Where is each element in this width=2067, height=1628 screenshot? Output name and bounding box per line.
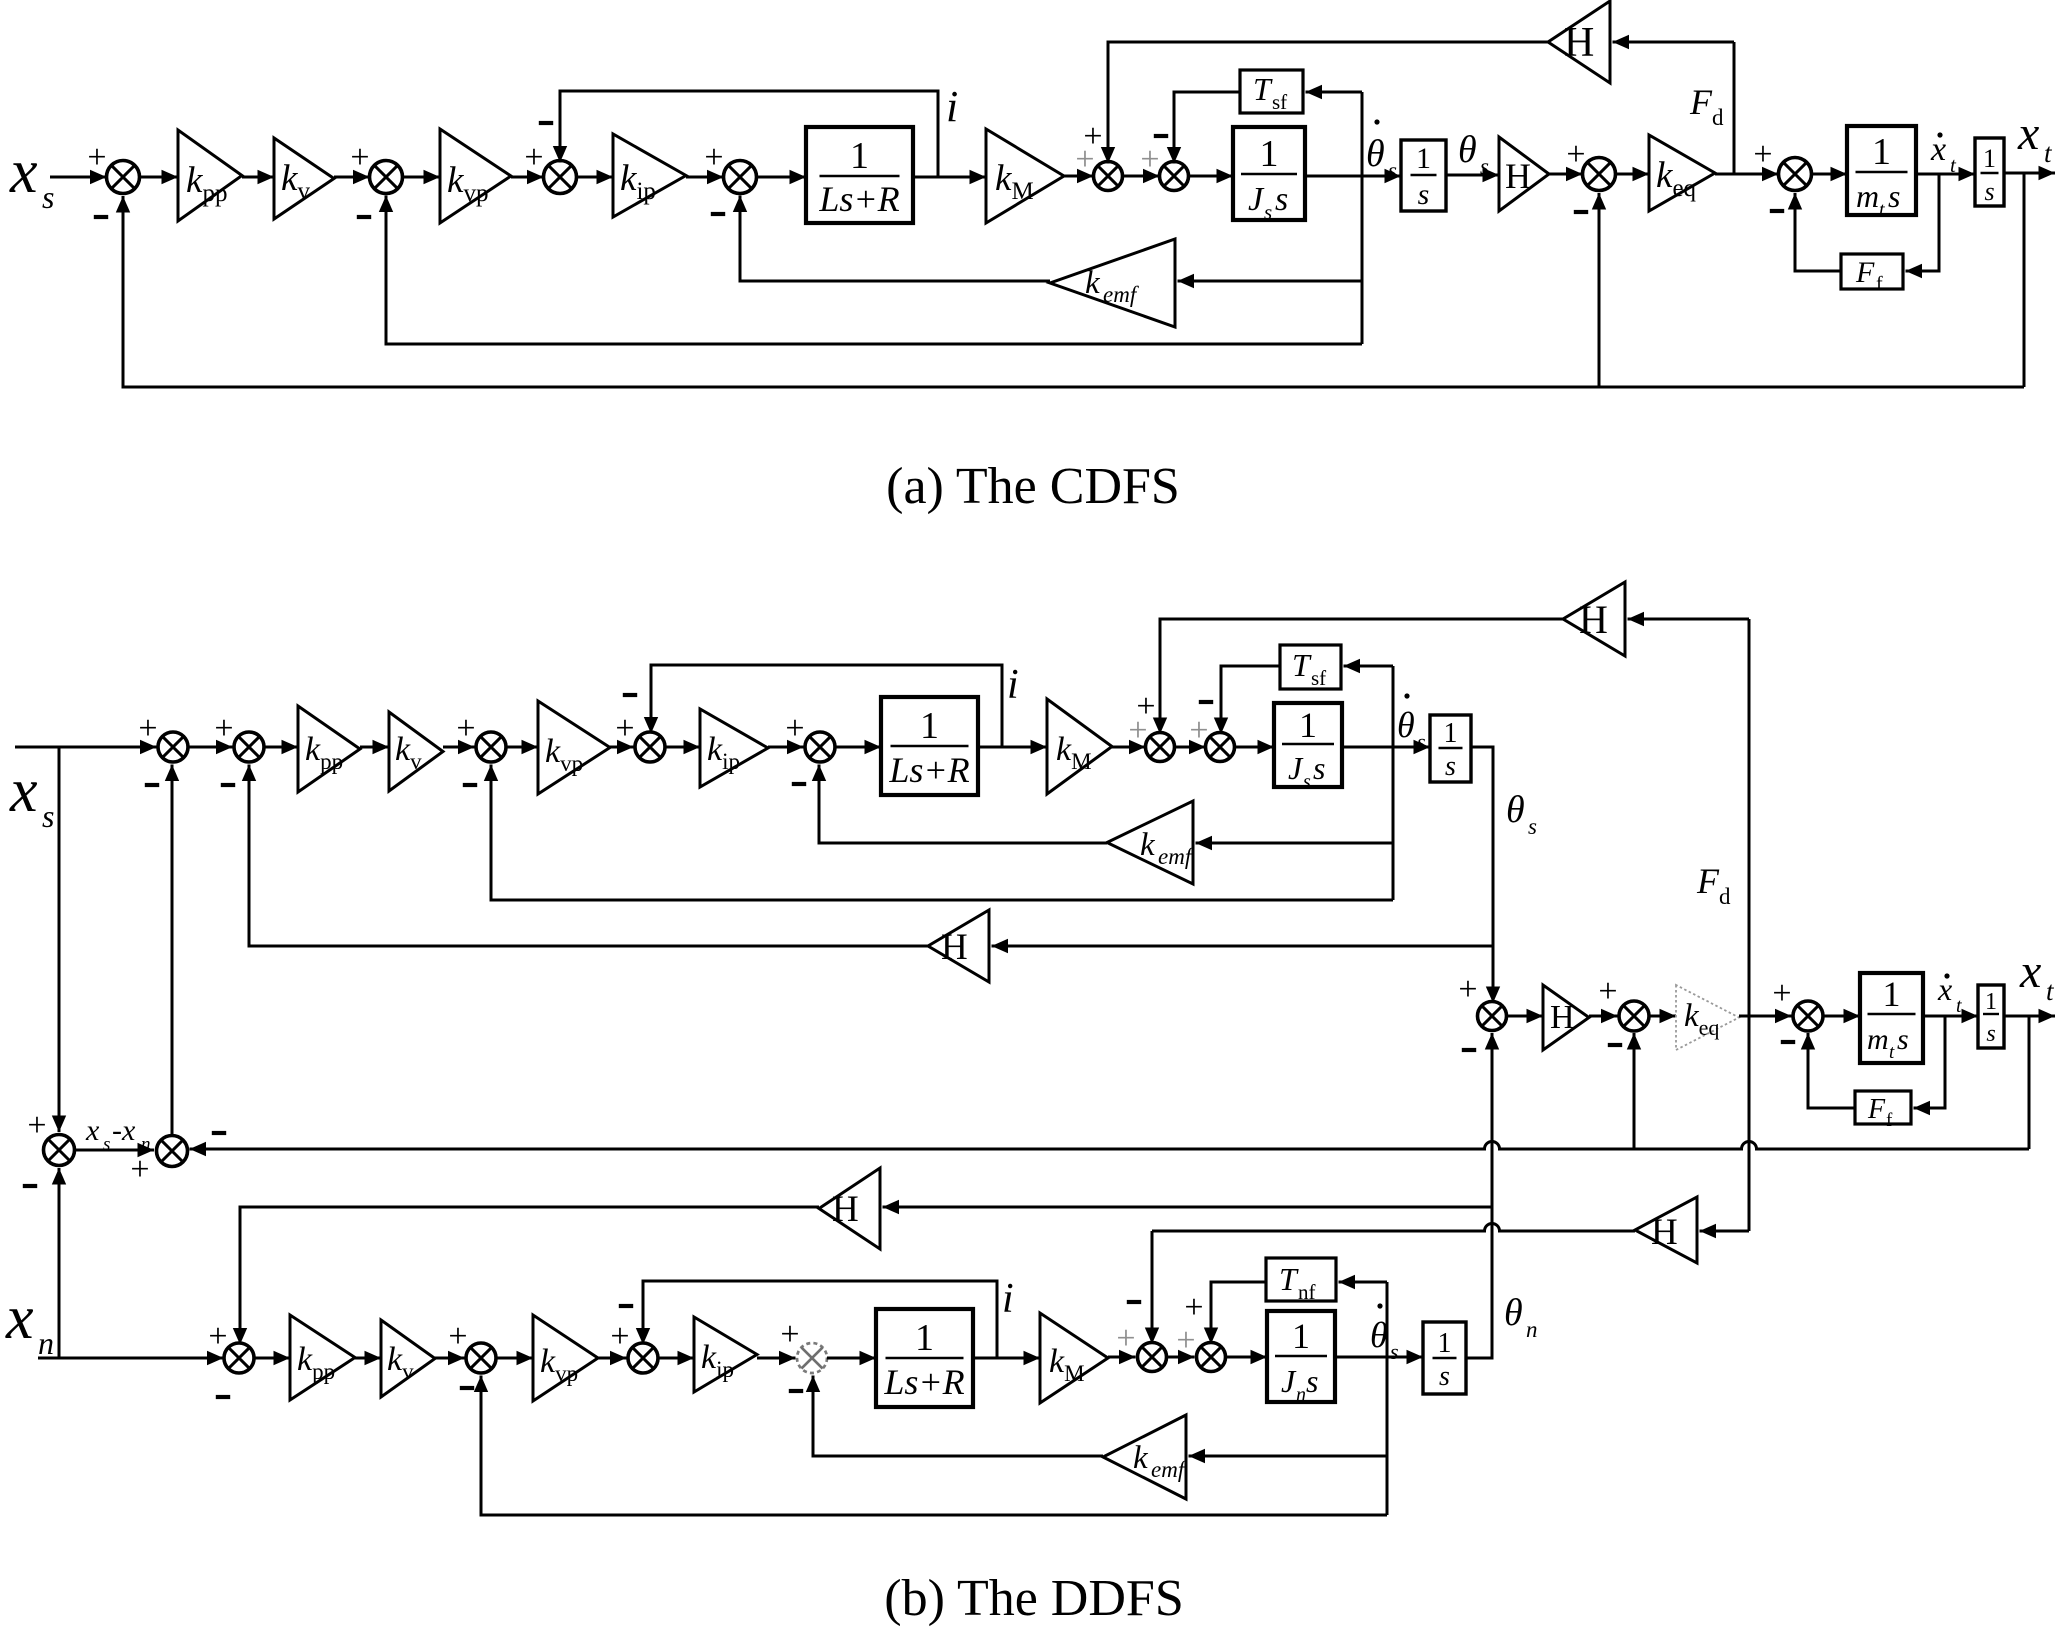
svg-text:+: + <box>1128 712 1147 749</box>
wire feedback tap to S7 (a) <box>1592 193 1606 387</box>
summing junction B3 (b) <box>476 732 506 762</box>
wire F_d to H input (b lower-right) <box>1700 1224 1750 1238</box>
summing junction B6 (b) <box>1146 733 1175 762</box>
svg-text:θ: θ <box>1504 1292 1523 1334</box>
gain k_emf (a) <box>1050 239 1175 327</box>
label theta_s (b) <box>1506 789 1537 839</box>
label theta_dot_s (b) <box>1397 693 1426 754</box>
svg-text:s: s <box>1275 181 1288 218</box>
label x_n input (b) <box>5 1284 54 1361</box>
svg-text:t: t <box>1889 1042 1895 1063</box>
block T_nf (b) <box>1266 1258 1336 1304</box>
wire F_d vertical (a) <box>1733 42 1736 174</box>
plus sign B_n6 left (b) <box>1176 1322 1195 1359</box>
wire H output to B_n1 (b) <box>233 1207 819 1345</box>
wire k_pp to k_v (a) <box>242 170 274 184</box>
wire k_M to sum B6 (b) <box>1112 740 1146 754</box>
plus sign B_n4 (b) <box>780 1316 799 1353</box>
wire k_pp to k_v (b bottom) <box>355 1351 381 1365</box>
label x_dot_t (a) <box>1930 131 1957 177</box>
svg-text:+: + <box>214 710 233 747</box>
svg-text:F: F <box>1867 1094 1886 1125</box>
svg-text:Ls+R: Ls+R <box>888 750 969 790</box>
svg-text:J: J <box>1288 750 1304 786</box>
gain k_v (b bottom) <box>381 1320 435 1397</box>
plus sign B6 top (b) <box>1136 688 1155 725</box>
wire k_emf input (a) <box>1178 274 1363 288</box>
plus sign S4 (a) <box>704 139 723 176</box>
summing junction B_n2 (b) <box>466 1343 496 1373</box>
plus sign S3 (a) <box>524 139 543 176</box>
wire theta_s to H input (b mid-left) <box>992 939 1494 953</box>
wire B_n5 to sum B_n6 (b) <box>1167 1350 1195 1364</box>
svg-text:F: F <box>1696 861 1720 901</box>
minus sign S6 top (a) <box>1154 134 1168 138</box>
wire k_vp to sum B_n3 (b) <box>598 1351 627 1365</box>
svg-text:θ: θ <box>1366 133 1385 175</box>
minus sign B_n5 top (b) <box>1127 1300 1141 1304</box>
svg-text:emf: emf <box>1158 844 1195 869</box>
svg-text:1: 1 <box>1438 1328 1452 1359</box>
wire S1 to k_pp (a) <box>140 170 179 184</box>
wire H output to B2 (b) <box>242 765 928 947</box>
wire H to sum B9 (b) <box>1589 1009 1618 1023</box>
wire current i feedback (b top) <box>644 665 1002 747</box>
wire S5 to sum S6 (a) <box>1123 169 1160 183</box>
wire velocity feedback to S2 (a) <box>379 196 1362 345</box>
minus sign B_n4 (b) <box>789 1389 803 1393</box>
gain H force feedback (b lower-right) <box>1635 1197 1697 1263</box>
svg-text:1: 1 <box>915 1317 934 1359</box>
summing junction S3 (a) <box>544 161 577 194</box>
wire current i feedback (b bottom) <box>636 1281 997 1358</box>
svg-text:1: 1 <box>1416 142 1431 175</box>
label x_t output (b) <box>2019 945 2055 1006</box>
plus sign B7 left (b) <box>1189 712 1208 749</box>
wire 1/(Ls+R) to k_M (b) <box>978 740 1047 754</box>
block 1/(m_t s) (a) <box>1847 126 1916 221</box>
gain k_pp (b bottom) <box>290 1315 355 1400</box>
plus sign S1 (a) <box>87 139 106 176</box>
svg-text:t: t <box>1956 995 1962 1017</box>
gain k_ip (b) <box>700 709 768 787</box>
svg-text:i: i <box>946 82 958 131</box>
plus sign S5 left (a) <box>1075 141 1094 178</box>
svg-text:i: i <box>1002 1276 1014 1322</box>
svg-text:s: s <box>1417 729 1426 754</box>
plus sign A2 left (b) <box>130 1151 149 1188</box>
svg-text:H: H <box>941 927 968 968</box>
wire S3 to k_ip (a) <box>577 170 614 184</box>
wire k_emf input (b bottom) <box>1189 1449 1388 1463</box>
wire B_n2 to k_vp (b bottom) <box>496 1351 533 1365</box>
svg-text:m: m <box>1856 178 1879 214</box>
wire 1/(J_s s) to integrator 1/s (b) <box>1342 740 1430 754</box>
summing junction B2 (b) <box>234 732 264 762</box>
svg-text:s: s <box>1303 771 1311 793</box>
label current i (b bottom) <box>1002 1276 1014 1322</box>
wire S7 to k_eq (a) <box>1616 167 1650 181</box>
svg-text:J: J <box>1248 181 1265 218</box>
summing junction A2 (b) <box>157 1136 188 1167</box>
block T_sf (a) <box>1240 70 1303 114</box>
minus sign A1 bottom (b) <box>23 1184 37 1188</box>
svg-text:s: s <box>1897 1023 1909 1056</box>
wire F_d vertical (b) <box>1748 619 1751 1231</box>
block F_f (a) <box>1841 254 1903 295</box>
minus sign B_n3 above (b) <box>619 1304 633 1308</box>
wire x_t output (b) <box>2004 1009 2055 1023</box>
svg-text:+: + <box>1075 141 1094 178</box>
wire H output to S5 (a) <box>1101 42 1548 164</box>
plus sign S7 (a) <box>1566 136 1585 173</box>
label x_s input (b) <box>9 757 54 834</box>
wire k_vp to sum S3 (a) <box>511 170 544 184</box>
gain k_eq (a) <box>1649 135 1715 211</box>
plus sign B5 (b) <box>785 710 804 747</box>
wire x_dot tap to F_f (b) <box>1914 1016 1946 1115</box>
wire x_t long feedback (b) <box>190 1142 2030 1157</box>
svg-text:d: d <box>1712 105 1724 130</box>
wire k_emf output to B5 (b) <box>812 765 1107 844</box>
minus sign B_n1 (b) <box>216 1395 230 1399</box>
wire T_sf input (a) <box>1306 85 1363 99</box>
svg-text:s: s <box>42 798 54 834</box>
integrator 1/s output (a) <box>1975 138 2004 206</box>
wire k_M to sum B_n5 (b) <box>1108 1350 1136 1364</box>
svg-text:i: i <box>1007 662 1019 708</box>
gain H middle (b) <box>1543 985 1589 1050</box>
block 1/(Ls+R) (b) <box>881 697 978 795</box>
label theta_n (b) <box>1504 1292 1538 1342</box>
label x_s-x_n (b) <box>85 1114 151 1155</box>
svg-text:emf: emf <box>1103 282 1140 307</box>
svg-text:+: + <box>1116 1320 1135 1357</box>
plus sign S5 top (a) <box>1083 118 1102 155</box>
minus sign B9 (b) <box>1608 1043 1622 1047</box>
svg-text:s: s <box>1313 750 1325 786</box>
wire k_pp to k_v (b) <box>360 740 389 754</box>
wire theta_s corner down (b) <box>1471 747 1493 946</box>
gain k_emf (b top) <box>1107 801 1195 884</box>
plus sign B_n2 (b) <box>448 1318 467 1355</box>
svg-text:+: + <box>456 710 475 747</box>
svg-text:+: + <box>610 1318 629 1355</box>
wire k_eq to sum B10 (b) <box>1739 1009 1792 1023</box>
svg-text:1: 1 <box>1299 705 1317 745</box>
summing junction B7 (b) <box>1206 733 1235 762</box>
wire F_d to H input (a) <box>1613 35 1735 49</box>
svg-text:d: d <box>1719 884 1731 909</box>
summing junction S6 (a) <box>1160 162 1189 191</box>
wire H output to B6 (b) <box>1153 619 1563 734</box>
svg-text:F: F <box>1855 256 1875 289</box>
summing junction S2 (a) <box>370 161 403 194</box>
svg-text:n: n <box>1526 1317 1538 1342</box>
plus sign B3 (b) <box>456 710 475 747</box>
wire k_emf output to S4 (a) <box>733 196 1050 282</box>
wire x_dot_t tap to F_f (a) <box>1906 174 1940 278</box>
wire A2 output up to B1 (b) <box>165 765 179 1136</box>
gain k_v (a) <box>274 138 334 219</box>
wire S6 to block 1/(J_s s) (a) <box>1189 169 1234 183</box>
wire B6 to sum B7 (b) <box>1175 740 1206 754</box>
plus sign S2 (a) <box>350 139 369 176</box>
wire k_v to sum B3 (b) <box>443 740 475 754</box>
svg-text:1: 1 <box>1983 144 1996 173</box>
svg-text:+: + <box>1189 712 1208 749</box>
wire F_f output to S8 (a) <box>1788 193 1841 271</box>
wire B4 to k_ip (b) <box>665 740 700 754</box>
svg-text:+: + <box>1753 136 1772 173</box>
caption (a) The CDFS <box>886 458 1180 515</box>
wire vertical node theta_dot tap (a) <box>1361 92 1364 344</box>
svg-text:θ: θ <box>1370 1315 1388 1355</box>
svg-text:+: + <box>1772 975 1791 1012</box>
wire F_f output to B10 (b) <box>1801 1033 1855 1108</box>
block T_sf (b) <box>1280 645 1341 690</box>
gain k_pp (b) <box>298 706 360 792</box>
plus sign A1 top (b) <box>27 1107 46 1144</box>
gain k_M (a) <box>986 129 1064 223</box>
svg-text:n: n <box>1296 1384 1306 1406</box>
wire B_n3 to k_ip (b bottom) <box>658 1351 694 1365</box>
svg-text:1: 1 <box>1883 974 1901 1014</box>
svg-text:T: T <box>1279 1261 1299 1297</box>
wire B7 to block 1/(J_s s) (b) <box>1235 740 1275 754</box>
block F_f (b) <box>1855 1091 1911 1131</box>
gain H force feedback (b top) <box>1563 582 1625 656</box>
minus sign S3 above (a) <box>539 121 553 125</box>
svg-text:s: s <box>1306 1363 1318 1399</box>
integrator 1/s first (a) <box>1401 140 1446 211</box>
svg-text:s: s <box>1439 1361 1450 1392</box>
wire F_d to H input (b top) <box>1628 612 1750 626</box>
plus sign B_n6 top (b) <box>1184 1289 1203 1326</box>
svg-text:s: s <box>1264 200 1272 224</box>
wire x_n input to sum B_n1 (b) <box>38 1351 224 1365</box>
wire 1/(m_t s) to integrator (b) <box>1923 1009 1978 1023</box>
svg-text:+: + <box>27 1107 46 1144</box>
wire 1/(m_t s) to integrator 1/s (a) <box>1916 167 1975 181</box>
label x_s input (a) <box>9 138 54 215</box>
wire B_n4 to block 1/(Ls+R) (b bottom) <box>827 1351 876 1365</box>
wire B3 to k_vp (b) <box>506 740 538 754</box>
gain H force feedback (a) <box>1548 1 1610 83</box>
block 1/(Ls+R) (a) <box>806 127 913 223</box>
gain k_pp (a) <box>178 130 242 221</box>
summing junction B4 (b) <box>635 732 665 762</box>
block 1/(J_s s) (a) <box>1233 127 1305 224</box>
wire theta_n corner up (b) <box>1466 1355 1492 1358</box>
wire velocity feedback to B3 (b) <box>484 765 1393 901</box>
svg-text:f: f <box>1876 273 1883 295</box>
svg-text:+: + <box>130 1151 149 1188</box>
svg-text:1: 1 <box>850 135 869 177</box>
wire x_s input to sum B1 (b) <box>15 740 157 754</box>
svg-text:sf: sf <box>1272 90 1287 114</box>
label F_d (a) <box>1689 82 1724 130</box>
svg-text:s: s <box>1418 178 1430 211</box>
svg-text:m: m <box>1867 1023 1889 1056</box>
svg-text:θ: θ <box>1506 789 1525 831</box>
svg-text:Ls+R: Ls+R <box>818 179 899 219</box>
gain k_M (b) <box>1047 699 1112 794</box>
block 1/(J_s s) (b) <box>1274 703 1342 793</box>
minus sign B7 top (b) <box>1199 700 1213 704</box>
summing junction S8 (a) <box>1779 158 1812 191</box>
minus sign B_n2 (b) <box>460 1386 474 1390</box>
svg-text:1: 1 <box>1260 133 1279 175</box>
wire x_t tap down (b) <box>2028 1016 2031 1149</box>
wire x_n tap up to A1 (b) <box>52 1168 66 1358</box>
integrator 1/s spool (b) <box>1430 715 1471 782</box>
gain k_emf (b bottom) <box>1103 1415 1188 1499</box>
wire B9 to k_eq (b) <box>1649 1009 1676 1023</box>
summing junction S5 (a) <box>1094 162 1123 191</box>
minus sign B2 (b) <box>221 783 235 787</box>
svg-text:1: 1 <box>1985 989 1997 1015</box>
wire theta_n to H input (b lower-left) <box>883 1200 1493 1214</box>
svg-text:+: + <box>1184 1289 1203 1326</box>
summing junction S4 (a) <box>724 161 757 194</box>
gain k_ip (b bottom) <box>694 1317 757 1392</box>
svg-text:1: 1 <box>920 705 939 747</box>
label theta_dot_n (b bottom) <box>1370 1303 1399 1364</box>
summing junction B_n5 (b) <box>1138 1343 1167 1372</box>
summing junction B8 (b) <box>1478 1002 1507 1031</box>
minus sign B1 (b) <box>145 783 159 787</box>
svg-text:x: x <box>2019 945 2041 998</box>
wire T_sf output to B7 (b) <box>1214 666 1280 734</box>
summing junction B_n3 (b) <box>628 1343 658 1373</box>
svg-text:θ: θ <box>1397 705 1415 745</box>
label F_d (b) <box>1696 861 1731 909</box>
gain H sensor (a) <box>1499 137 1549 211</box>
svg-text:Ls+R: Ls+R <box>883 1362 964 1402</box>
svg-text:k: k <box>1140 827 1156 863</box>
wire k_eq to sum S8 (a) <box>1715 167 1779 181</box>
svg-text:H: H <box>1564 20 1594 66</box>
svg-text:s: s <box>1445 751 1456 782</box>
wire k_v to sum S2 (a) <box>334 170 370 184</box>
wire x_t output (a) <box>2004 166 2055 180</box>
wire B1 to sum B2 (b) <box>188 740 233 754</box>
svg-text:+: + <box>615 710 634 747</box>
wire x_s input to sum S1 (a) <box>50 170 107 184</box>
summing junction B5 (b) <box>805 732 835 762</box>
wire 1/s to gain H (a) <box>1446 168 1499 182</box>
wire B_n6 to block 1/(J_n s) (b) <box>1226 1350 1268 1364</box>
svg-text:k: k <box>1085 265 1101 301</box>
svg-text:+: + <box>780 1316 799 1353</box>
svg-text:+: + <box>704 139 723 176</box>
plus sign B_n1 top (b) <box>208 1318 227 1355</box>
caption (b) The DDFS <box>884 1570 1183 1627</box>
wire 1/(Ls+R) to k_M (a) <box>913 170 986 184</box>
svg-text:+: + <box>785 710 804 747</box>
wire H output left (b lower-right) <box>1152 1224 1635 1231</box>
svg-text:+: + <box>1140 141 1159 178</box>
svg-text:x: x <box>5 1284 34 1352</box>
plus sign B1 (b) <box>138 710 157 747</box>
minus sign B10 (b) <box>1781 1040 1795 1044</box>
summing junction B_n1 (b) <box>224 1343 254 1373</box>
svg-text:1: 1 <box>1444 718 1458 749</box>
plus sign B10 (b) <box>1772 975 1791 1012</box>
minus sign S7 (a) <box>1574 210 1588 214</box>
plus sign B8 top (b) <box>1458 971 1477 1008</box>
svg-text:s: s <box>103 1134 110 1155</box>
svg-text:+: + <box>1458 971 1477 1008</box>
wire A1 to A2 (b) <box>75 1143 155 1157</box>
summing junction B10 (b) <box>1793 1001 1823 1031</box>
svg-text:emf: emf <box>1151 1457 1188 1482</box>
svg-text:s: s <box>1390 1339 1399 1364</box>
svg-text:+: + <box>1176 1322 1195 1359</box>
wire B10 to block 1/(m_t s) (b) <box>1823 1009 1860 1023</box>
svg-text:1: 1 <box>1292 1316 1310 1356</box>
wire S2 to k_vp (a) <box>403 170 441 184</box>
plus sign B4 (b) <box>615 710 634 747</box>
wire k_ip to sum B5 (b) <box>768 740 804 754</box>
wire H to sum S7 (a) <box>1549 167 1583 181</box>
gain H feedback (b mid-left) <box>928 910 989 982</box>
wire theta_s down to B8 (b) <box>1486 946 1500 1003</box>
wire theta_n vertical to B8 (b) <box>1485 1033 1499 1355</box>
gain k_vp (a) <box>440 129 511 223</box>
svg-text:+: + <box>350 139 369 176</box>
svg-text:t: t <box>1879 199 1885 221</box>
svg-text:+: + <box>1566 136 1585 173</box>
svg-text:x: x <box>9 138 38 206</box>
minus sign A2 right (b) <box>212 1131 226 1135</box>
svg-text:+: + <box>87 139 106 176</box>
svg-text:1: 1 <box>1872 131 1891 173</box>
minus sign B8 bottom (b) <box>1462 1048 1476 1052</box>
wire S4 to block 1/(Ls+R) (a) <box>757 170 807 184</box>
block 1/(J_n s) (b) <box>1267 1311 1335 1406</box>
svg-text:x: x <box>9 757 38 825</box>
minus sign B3 (b) <box>463 783 477 787</box>
wire x_t tap down (a) <box>2023 173 2026 387</box>
summing junction B_n4 dashed (b) <box>797 1343 827 1373</box>
wire S8 to block 1/(m_t s) (a) <box>1812 167 1848 181</box>
svg-text:x: x <box>2017 107 2039 160</box>
gain k_ip (a) <box>613 134 686 217</box>
wire feedback tap to B9 (b) <box>1627 1033 1641 1149</box>
svg-text:-x: -x <box>112 1114 136 1147</box>
wire vertical theta_dot_n tap (b) <box>1386 1282 1389 1515</box>
svg-text:+: + <box>1598 973 1617 1010</box>
svg-text:H: H <box>832 1189 859 1230</box>
wire velocity feedback to B_n2 (b) <box>474 1376 1387 1516</box>
label theta_s (a) <box>1458 129 1489 179</box>
wire B2 to k_pp (b) <box>264 740 298 754</box>
block 1/(Ls+R) (b bottom) <box>876 1309 973 1407</box>
minus sign B4 above (b) <box>623 693 637 697</box>
label x_dot_t (b) <box>1937 971 1962 1017</box>
svg-text:F: F <box>1689 82 1713 122</box>
wire k_ip to sum B_n4 (b) <box>757 1351 796 1365</box>
svg-text:+: + <box>138 710 157 747</box>
svg-text:k: k <box>1133 1440 1149 1476</box>
wire T_sf output to S6 (a) <box>1167 92 1240 164</box>
gain k_v (b) <box>389 712 443 791</box>
plus sign B_n5 left (b) <box>1116 1320 1135 1357</box>
wire T_nf output to B_n6 (b) <box>1204 1282 1266 1344</box>
label current i (b top) <box>1007 662 1019 708</box>
